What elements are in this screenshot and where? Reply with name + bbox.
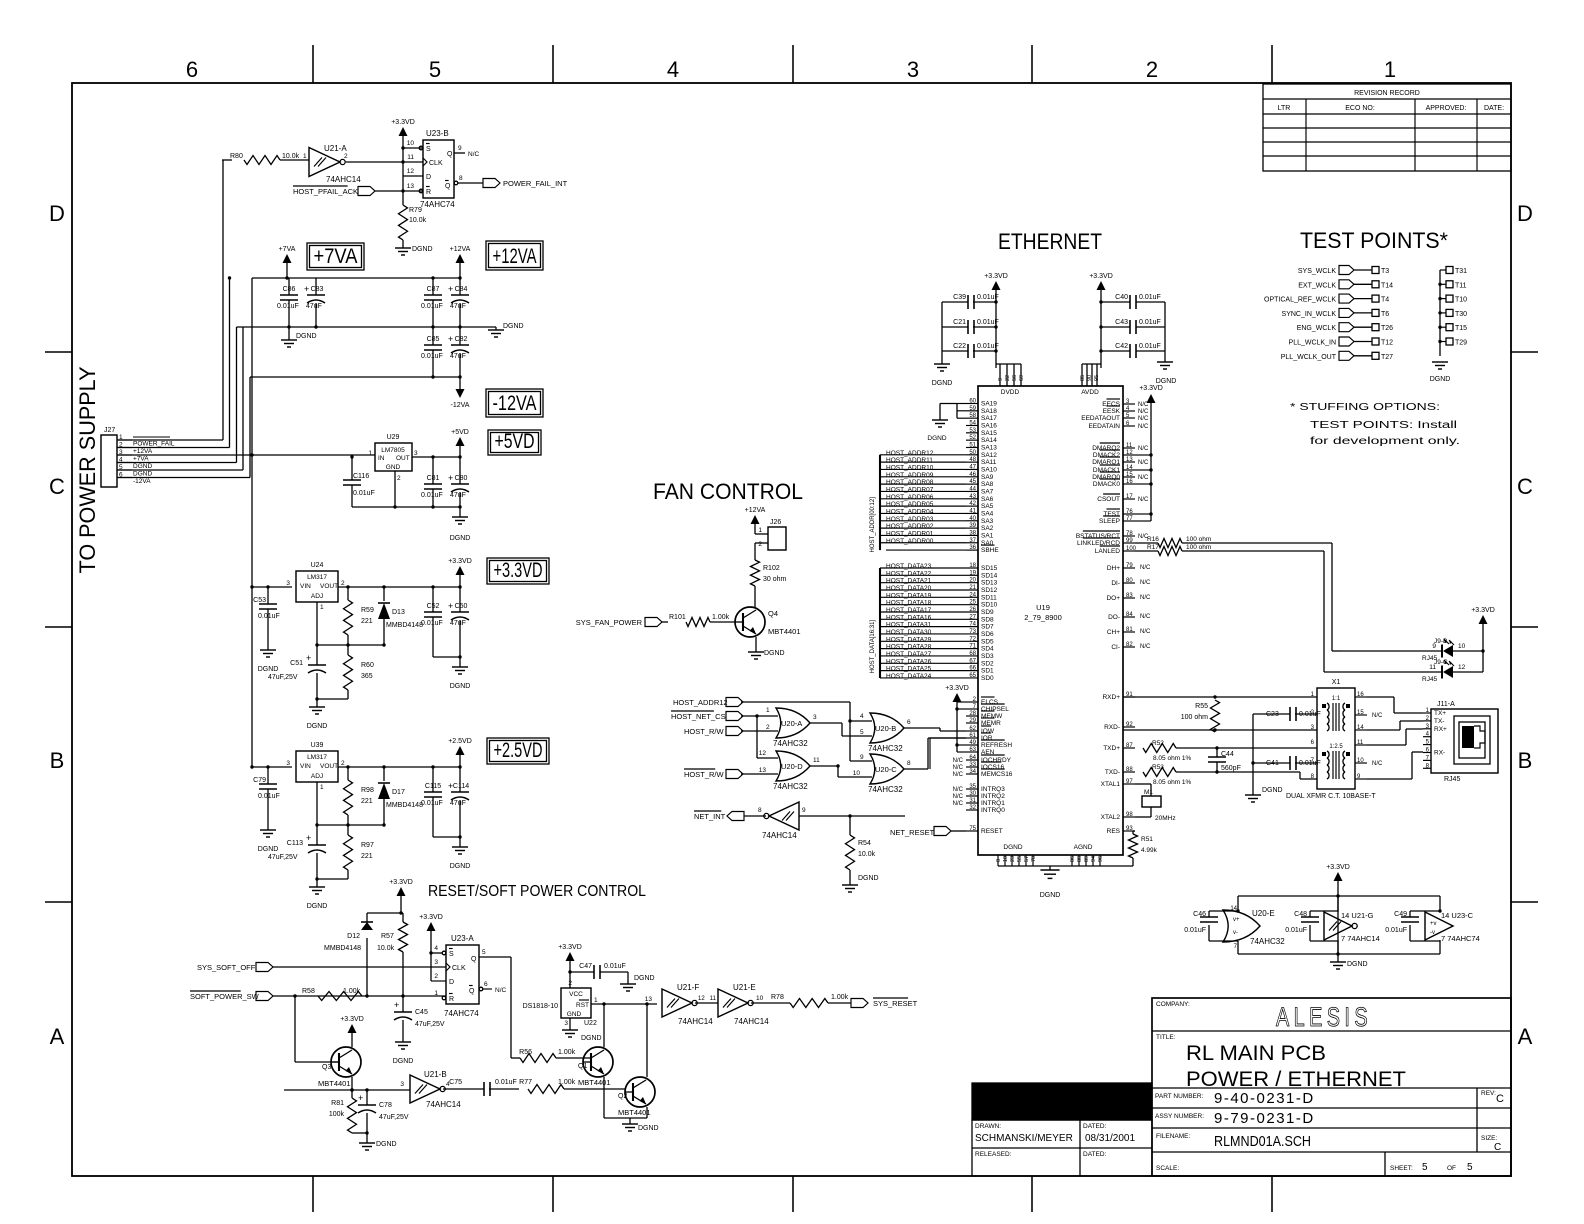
svg-text:DGND: DGND xyxy=(450,535,471,542)
svg-text:SD10: SD10 xyxy=(981,602,998,609)
svg-text:9: 9 xyxy=(998,378,1004,381)
svg-text:+3.3VD: +3.3VD xyxy=(1139,385,1163,392)
svg-text:41: 41 xyxy=(969,508,976,514)
svg-text:SD3: SD3 xyxy=(981,653,994,660)
svg-text:DGND: DGND xyxy=(503,323,524,330)
svg-text:88: 88 xyxy=(1126,767,1133,773)
svg-text:C40: C40 xyxy=(1115,294,1128,301)
svg-text:74AHC32: 74AHC32 xyxy=(868,785,903,794)
svg-text:4.99k: 4.99k xyxy=(1141,847,1158,854)
svg-text:TEST: TEST xyxy=(1103,511,1120,518)
svg-text:87: 87 xyxy=(1126,743,1133,749)
svg-text:DGND: DGND xyxy=(1156,378,1177,385)
svg-text:EXT_WCLK: EXT_WCLK xyxy=(1298,282,1336,289)
svg-text:1: 1 xyxy=(1384,57,1396,82)
svg-text:J11-A: J11-A xyxy=(1437,701,1455,708)
svg-text:APPROVED:: APPROVED: xyxy=(1426,105,1467,112)
svg-text:C86: C86 xyxy=(283,286,296,293)
svg-text:C84: C84 xyxy=(455,286,468,293)
svg-text:0.01uF: 0.01uF xyxy=(421,353,443,360)
svg-text:+2.5VD: +2.5VD xyxy=(448,738,472,745)
svg-text:+5VD: +5VD xyxy=(495,430,535,453)
svg-text:+12VA: +12VA xyxy=(493,245,537,268)
svg-text:SA15: SA15 xyxy=(981,430,997,437)
svg-text:DRAWN:: DRAWN: xyxy=(975,1123,1001,1130)
svg-text:10: 10 xyxy=(1357,758,1364,764)
svg-text:C115: C115 xyxy=(425,783,441,790)
svg-text:2: 2 xyxy=(341,580,345,587)
svg-text:DGND: DGND xyxy=(1003,844,1022,851)
svg-text:TXD-: TXD- xyxy=(1105,769,1120,776)
svg-text:SD4: SD4 xyxy=(981,646,994,653)
svg-text:+: + xyxy=(306,653,311,663)
svg-text:DATED:: DATED: xyxy=(1083,1123,1107,1130)
svg-text:3: 3 xyxy=(564,1020,568,1027)
svg-text:U20-D: U20-D xyxy=(781,762,803,771)
svg-text:HOST_DATA19: HOST_DATA19 xyxy=(886,592,932,599)
svg-text:96: 96 xyxy=(1098,856,1104,862)
svg-text:+5VD: +5VD xyxy=(451,429,469,436)
svg-text:EESK: EESK xyxy=(1103,408,1121,415)
svg-text:SD2: SD2 xyxy=(981,660,994,667)
svg-text:8.05 ohm 1%: 8.05 ohm 1% xyxy=(1153,755,1192,762)
svg-text:MEMCS16: MEMCS16 xyxy=(981,771,1013,778)
svg-text:70: 70 xyxy=(1031,856,1037,862)
svg-text:12: 12 xyxy=(1458,664,1466,671)
svg-text:HOST_DATA26: HOST_DATA26 xyxy=(886,658,932,665)
svg-text:Q: Q xyxy=(469,988,475,995)
svg-text:74AHC32: 74AHC32 xyxy=(868,744,903,753)
svg-text:47uF,25V: 47uF,25V xyxy=(415,1021,445,1028)
svg-text:11: 11 xyxy=(813,757,820,764)
svg-text:90: 90 xyxy=(1087,375,1093,381)
svg-text:RX-: RX- xyxy=(1434,750,1445,757)
svg-text:N/C: N/C xyxy=(1372,713,1383,719)
svg-text:TEST POINTS: Install: TEST POINTS: Install xyxy=(1310,420,1457,431)
svg-text:T3: T3 xyxy=(1381,268,1389,275)
svg-text:6: 6 xyxy=(186,57,198,82)
svg-text:84: 84 xyxy=(1126,612,1133,618)
svg-text:DGND: DGND xyxy=(581,1035,602,1042)
svg-text:OF: OF xyxy=(1447,1165,1456,1172)
svg-text:28: 28 xyxy=(969,711,976,717)
svg-text:IOCHRDY: IOCHRDY xyxy=(981,757,1012,764)
svg-text:DGND: DGND xyxy=(858,875,879,882)
svg-text:1:1: 1:1 xyxy=(1332,696,1341,702)
svg-text:ADJ: ADJ xyxy=(311,773,323,780)
svg-text:DGND: DGND xyxy=(450,683,471,690)
svg-text:10.0k: 10.0k xyxy=(858,851,876,858)
svg-text:N/C: N/C xyxy=(1372,761,1383,767)
svg-text:2: 2 xyxy=(344,153,348,160)
svg-text:HOST_DATA31: HOST_DATA31 xyxy=(886,622,932,629)
svg-text:Q4: Q4 xyxy=(768,609,778,618)
svg-text:73: 73 xyxy=(969,629,976,635)
svg-text:75: 75 xyxy=(969,826,976,832)
svg-text:N/C: N/C xyxy=(1138,497,1149,503)
svg-text:35: 35 xyxy=(969,784,976,790)
svg-text:SD12: SD12 xyxy=(981,587,998,594)
svg-text:A: A xyxy=(1518,1024,1533,1049)
svg-text:+: + xyxy=(358,1093,363,1103)
svg-text:0.01uF: 0.01uF xyxy=(258,793,280,800)
svg-text:80: 80 xyxy=(1126,578,1133,584)
svg-text:DH+: DH+ xyxy=(1107,565,1120,572)
svg-text:CH+: CH+ xyxy=(1107,629,1120,636)
svg-text:C50: C50 xyxy=(455,603,468,610)
svg-text:74AHC14: 74AHC14 xyxy=(678,1017,713,1026)
svg-text:23: 23 xyxy=(1010,856,1016,862)
svg-text:DGND: DGND xyxy=(764,650,785,657)
svg-text:SD0: SD0 xyxy=(981,675,994,682)
svg-text:SD5: SD5 xyxy=(981,638,994,645)
svg-text:T26: T26 xyxy=(1381,325,1393,332)
svg-text:T6: T6 xyxy=(1381,311,1389,318)
svg-text:3: 3 xyxy=(400,1081,404,1088)
svg-text:SBHE: SBHE xyxy=(981,547,999,554)
svg-text:30: 30 xyxy=(969,791,976,797)
svg-text:IOCS16: IOCS16 xyxy=(981,764,1005,771)
svg-text:ENG_WCLK: ENG_WCLK xyxy=(1297,325,1337,332)
svg-text:N/C: N/C xyxy=(953,794,964,800)
svg-text:74: 74 xyxy=(969,622,976,628)
svg-text:SA4: SA4 xyxy=(981,510,994,517)
svg-text:74AHC32: 74AHC32 xyxy=(1250,937,1285,946)
svg-text:2: 2 xyxy=(341,760,345,767)
svg-text:SA2: SA2 xyxy=(981,525,994,532)
svg-text:47uF: 47uF xyxy=(450,303,466,310)
svg-text:DGND: DGND xyxy=(638,1125,659,1132)
svg-text:T31: T31 xyxy=(1455,268,1467,275)
svg-text:T10: T10 xyxy=(1455,297,1467,304)
svg-text:+3.3VD: +3.3VD xyxy=(1089,273,1113,280)
svg-text:R17: R17 xyxy=(1147,544,1159,551)
svg-text:0.01uF: 0.01uF xyxy=(421,492,443,499)
svg-text:DGND: DGND xyxy=(258,846,279,853)
svg-text:D: D xyxy=(1517,201,1533,226)
svg-text:HOST_ADDR06: HOST_ADDR06 xyxy=(886,494,934,501)
svg-text:LM7805: LM7805 xyxy=(381,447,405,454)
svg-text:INTRQ1: INTRQ1 xyxy=(981,800,1005,807)
svg-text:DGND: DGND xyxy=(133,463,152,470)
svg-text:R58: R58 xyxy=(302,988,315,995)
svg-text:+: + xyxy=(448,473,453,483)
svg-text:MMBD4148: MMBD4148 xyxy=(324,945,361,952)
svg-text:Q: Q xyxy=(447,151,453,158)
svg-text:RXD-: RXD- xyxy=(1104,724,1120,731)
svg-text:U19: U19 xyxy=(1036,603,1050,612)
svg-text:MMBD4148: MMBD4148 xyxy=(386,622,423,629)
svg-text:1: 1 xyxy=(368,450,372,457)
svg-text:SA19: SA19 xyxy=(981,401,997,408)
svg-text:ASSY NUMBER:: ASSY NUMBER: xyxy=(1155,1113,1204,1120)
svg-text:C82: C82 xyxy=(455,336,468,343)
svg-text:ALESIS: ALESIS xyxy=(1276,1002,1372,1032)
svg-text:RESET: RESET xyxy=(981,828,1003,835)
svg-text:SA11: SA11 xyxy=(981,459,997,466)
svg-text:+3.3VD: +3.3VD xyxy=(494,559,543,582)
svg-text:SD6: SD6 xyxy=(981,631,994,638)
svg-text:3: 3 xyxy=(434,959,438,966)
svg-text:N/C: N/C xyxy=(495,987,507,994)
svg-text:0.01uF: 0.01uF xyxy=(1139,319,1161,326)
svg-text:SLEEP: SLEEP xyxy=(1099,518,1120,525)
svg-text:N/C: N/C xyxy=(953,801,964,807)
svg-text:DGND: DGND xyxy=(307,723,328,730)
svg-text:INTRQ2: INTRQ2 xyxy=(981,793,1005,800)
svg-text:12: 12 xyxy=(1126,450,1133,456)
svg-text:U22: U22 xyxy=(584,1020,597,1027)
svg-text:83: 83 xyxy=(1126,593,1133,599)
svg-text:0.01uF: 0.01uF xyxy=(604,963,626,970)
svg-text:1.00k: 1.00k xyxy=(831,994,849,1001)
svg-text:11: 11 xyxy=(1126,443,1133,449)
svg-text:0.01uF: 0.01uF xyxy=(1385,927,1407,934)
svg-text:C113: C113 xyxy=(287,840,303,847)
svg-text:DGND: DGND xyxy=(1430,376,1451,383)
svg-text:11: 11 xyxy=(407,154,414,161)
svg-text:82: 82 xyxy=(1126,642,1133,648)
svg-text:24: 24 xyxy=(969,592,976,598)
svg-text:DGND: DGND xyxy=(450,863,471,870)
svg-text:N/C: N/C xyxy=(953,765,964,771)
svg-text:SA18: SA18 xyxy=(981,408,997,415)
svg-text:VIN: VIN xyxy=(300,763,311,770)
svg-text:PLL_WCLK_IN: PLL_WCLK_IN xyxy=(1289,340,1336,347)
svg-text:COMPANY:: COMPANY: xyxy=(1156,1001,1190,1008)
svg-text:SA7: SA7 xyxy=(981,488,994,495)
svg-text:DGND: DGND xyxy=(1347,961,1368,968)
svg-text:HOST_PFAIL_ACK: HOST_PFAIL_ACK xyxy=(293,187,358,196)
svg-text:SA5: SA5 xyxy=(981,503,994,510)
svg-text:T14: T14 xyxy=(1381,282,1393,289)
svg-text:9: 9 xyxy=(458,145,462,152)
svg-text:N/C: N/C xyxy=(1138,446,1149,452)
svg-text:14 U23-C: 14 U23-C xyxy=(1441,911,1474,920)
svg-text:S: S xyxy=(426,146,431,153)
svg-text:MBT4401: MBT4401 xyxy=(618,1108,651,1117)
svg-text:74AHC14: 74AHC14 xyxy=(426,1100,461,1109)
svg-text:DUAL XFMR C.T. 10BASE-T: DUAL XFMR C.T. 10BASE-T xyxy=(1286,793,1376,800)
svg-text:VCC: VCC xyxy=(569,991,583,998)
svg-text:HOST_ADDR12: HOST_ADDR12 xyxy=(886,450,934,457)
svg-text:DI-: DI- xyxy=(1111,580,1120,587)
svg-text:R101: R101 xyxy=(669,614,686,621)
svg-text:57: 57 xyxy=(1024,856,1030,862)
svg-text:REFRESH: REFRESH xyxy=(981,742,1012,749)
svg-text:-12VA: -12VA xyxy=(451,402,470,409)
svg-text:HOST_ADDR[00:12]: HOST_ADDR[00:12] xyxy=(870,497,876,553)
svg-text:56: 56 xyxy=(1012,375,1018,381)
svg-text:0.01uF: 0.01uF xyxy=(1139,343,1161,350)
svg-text:R51: R51 xyxy=(1141,836,1153,843)
svg-text:0.01uF: 0.01uF xyxy=(353,490,375,497)
svg-text:+3.3VD: +3.3VD xyxy=(391,119,415,126)
svg-text:R16: R16 xyxy=(1147,536,1159,543)
svg-text:CLK: CLK xyxy=(452,965,466,972)
svg-text:47uF: 47uF xyxy=(450,800,466,807)
svg-text:HOST_DATA25: HOST_DATA25 xyxy=(886,666,932,673)
svg-text:INTRQ3: INTRQ3 xyxy=(981,786,1005,793)
svg-text:2: 2 xyxy=(758,541,762,548)
svg-text:0.01uF: 0.01uF xyxy=(1285,927,1307,934)
svg-text:14 U21-G: 14 U21-G xyxy=(1341,911,1374,920)
svg-text:Q3: Q3 xyxy=(322,1064,331,1071)
svg-text:U20-E: U20-E xyxy=(1252,909,1275,918)
svg-text:C: C xyxy=(49,474,65,499)
svg-text:M1: M1 xyxy=(1144,789,1153,796)
svg-text:+v: +v xyxy=(1430,921,1437,927)
svg-text:ECO NO:: ECO NO: xyxy=(1345,105,1375,112)
svg-text:BSTATUS/RCT: BSTATUS/RCT xyxy=(1076,533,1120,540)
svg-text:C48: C48 xyxy=(1294,911,1307,918)
svg-text:15: 15 xyxy=(1357,710,1364,716)
svg-text:Q2: Q2 xyxy=(618,1093,627,1100)
svg-text:R81: R81 xyxy=(331,1100,344,1107)
svg-text:SA14: SA14 xyxy=(981,437,997,444)
svg-text:N/C: N/C xyxy=(953,772,964,778)
svg-text:+: + xyxy=(448,601,453,611)
svg-text:C: C xyxy=(1494,1142,1501,1153)
svg-text:FAN CONTROL: FAN CONTROL xyxy=(653,479,803,504)
svg-text:59: 59 xyxy=(969,406,976,412)
svg-text:U21-A: U21-A xyxy=(324,144,347,153)
svg-text:SD15: SD15 xyxy=(981,565,998,572)
svg-text:79: 79 xyxy=(1126,563,1133,569)
svg-text:13: 13 xyxy=(759,767,767,774)
svg-text:4: 4 xyxy=(434,945,438,952)
svg-text:HOST_ADDR07: HOST_ADDR07 xyxy=(886,486,934,493)
svg-text:DGND: DGND xyxy=(927,435,946,442)
svg-text:9: 9 xyxy=(802,807,806,814)
svg-text:SA6: SA6 xyxy=(981,496,994,503)
svg-text:45: 45 xyxy=(969,479,976,485)
svg-text:+7VA: +7VA xyxy=(279,246,296,253)
svg-text:+: + xyxy=(304,284,309,294)
svg-text:100 ohm: 100 ohm xyxy=(1186,544,1211,551)
svg-text:22: 22 xyxy=(1005,375,1011,381)
svg-text:1.00k: 1.00k xyxy=(343,988,361,995)
svg-text:25: 25 xyxy=(969,600,976,606)
svg-text:RELEASED:: RELEASED: xyxy=(975,1151,1012,1158)
svg-text:MBT4401: MBT4401 xyxy=(768,627,801,636)
svg-text:221: 221 xyxy=(361,798,373,805)
svg-text:38: 38 xyxy=(969,530,976,536)
svg-text:7 74AHC14: 7 74AHC14 xyxy=(1341,934,1380,943)
svg-text:12: 12 xyxy=(759,750,767,757)
svg-text:SA9: SA9 xyxy=(981,474,994,481)
svg-text:U21-E: U21-E xyxy=(733,983,756,992)
svg-text:SD9: SD9 xyxy=(981,609,994,616)
svg-text:HOST_DATA24: HOST_DATA24 xyxy=(886,673,932,680)
svg-text:+3.3VD: +3.3VD xyxy=(984,273,1008,280)
svg-text:PLL_WCLK_OUT: PLL_WCLK_OUT xyxy=(1281,354,1337,361)
svg-text:26: 26 xyxy=(969,607,976,613)
svg-text:SA13: SA13 xyxy=(981,444,997,451)
svg-text:14: 14 xyxy=(1126,465,1133,471)
svg-text:20MHz: 20MHz xyxy=(1155,815,1176,822)
svg-text:DO+: DO+ xyxy=(1106,595,1120,602)
svg-text:47uF,25V: 47uF,25V xyxy=(379,1114,409,1121)
svg-text:T27: T27 xyxy=(1381,354,1393,361)
svg-text:IOW: IOW xyxy=(981,728,995,735)
svg-text:77: 77 xyxy=(1126,516,1133,522)
svg-text:N/C: N/C xyxy=(1138,460,1149,466)
svg-text:SD13: SD13 xyxy=(981,580,998,587)
svg-text:0.01uF: 0.01uF xyxy=(977,319,999,326)
svg-text:U21-F: U21-F xyxy=(677,983,699,992)
svg-text:C87: C87 xyxy=(427,286,440,293)
svg-text:ELCS: ELCS xyxy=(981,699,999,706)
svg-text:54: 54 xyxy=(969,420,976,426)
svg-text:T12: T12 xyxy=(1381,340,1393,347)
svg-text:0.01uF: 0.01uF xyxy=(421,303,443,310)
svg-text:N/C: N/C xyxy=(1140,614,1151,620)
svg-text:60: 60 xyxy=(969,399,976,405)
svg-text:4: 4 xyxy=(860,713,864,720)
svg-text:LANLED: LANLED xyxy=(1095,548,1121,555)
svg-text:94: 94 xyxy=(1091,856,1097,862)
svg-text:REVISION RECORD: REVISION RECORD xyxy=(1354,90,1420,97)
svg-text:HOST_ADDR04: HOST_ADDR04 xyxy=(886,508,934,515)
svg-text:T29: T29 xyxy=(1455,340,1467,347)
svg-text:+12VA: +12VA xyxy=(133,448,153,455)
svg-text:N/C: N/C xyxy=(1138,409,1149,415)
svg-text:N/C: N/C xyxy=(1138,424,1149,430)
svg-text:DGND: DGND xyxy=(376,1141,397,1148)
svg-text:TX+: TX+ xyxy=(1434,710,1446,717)
svg-text:DVDD: DVDD xyxy=(1001,389,1020,396)
svg-text:5: 5 xyxy=(482,949,486,956)
svg-text:for development only.: for development only. xyxy=(1310,436,1460,447)
svg-text:EECS: EECS xyxy=(1102,401,1120,408)
svg-text:FILENAME:: FILENAME: xyxy=(1156,1133,1191,1140)
svg-text:X1: X1 xyxy=(1332,679,1341,686)
svg-text:RES: RES xyxy=(1107,828,1121,835)
svg-text:v+: v+ xyxy=(1233,917,1240,923)
svg-text:3: 3 xyxy=(414,450,418,457)
svg-text:47uF,25V: 47uF,25V xyxy=(268,674,298,681)
svg-text:36: 36 xyxy=(969,545,976,551)
svg-text:-12VA: -12VA xyxy=(133,478,151,485)
svg-text:SA16: SA16 xyxy=(981,422,997,429)
svg-text:INTRQ0: INTRQ0 xyxy=(981,807,1005,814)
svg-text:GND: GND xyxy=(567,1011,582,1018)
svg-text:99: 99 xyxy=(1126,538,1133,544)
svg-text:71: 71 xyxy=(969,644,976,650)
svg-text:R98: R98 xyxy=(361,787,374,794)
svg-text:52: 52 xyxy=(969,435,976,441)
svg-text:DGND: DGND xyxy=(258,666,279,673)
svg-text:DGND: DGND xyxy=(133,471,152,478)
svg-text:46: 46 xyxy=(969,472,976,478)
svg-text:SHEET:: SHEET: xyxy=(1390,1165,1413,1172)
svg-text:EEDATAOUT: EEDATAOUT xyxy=(1081,415,1120,422)
svg-text:EEDATAIN: EEDATAIN xyxy=(1088,423,1120,430)
svg-text:33: 33 xyxy=(969,762,976,768)
svg-text:S: S xyxy=(449,951,454,958)
svg-text:N/C: N/C xyxy=(1140,644,1151,650)
svg-text:1.00k: 1.00k xyxy=(558,1079,576,1086)
svg-text:XTAL1: XTAL1 xyxy=(1101,781,1121,788)
svg-text:SA12: SA12 xyxy=(981,452,997,459)
svg-text:CSOUT: CSOUT xyxy=(1097,496,1120,503)
svg-text:100k: 100k xyxy=(329,1111,345,1118)
svg-text:HOST_DATA27: HOST_DATA27 xyxy=(886,651,932,658)
svg-text:47uF: 47uF xyxy=(306,303,322,310)
svg-text:VOUT: VOUT xyxy=(320,763,338,770)
svg-text:VOUT: VOUT xyxy=(320,583,338,590)
